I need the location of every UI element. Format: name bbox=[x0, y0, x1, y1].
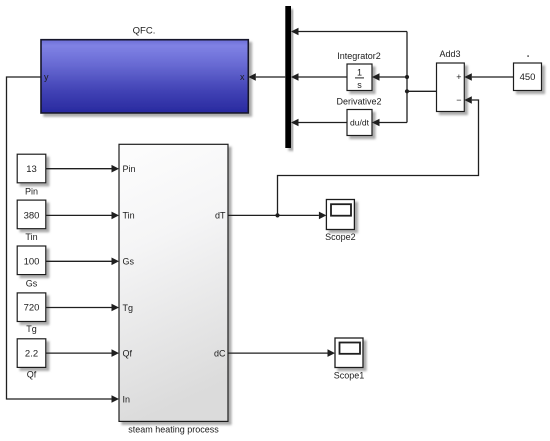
value 100 bbox=[24, 257, 40, 268]
value 2.2 bbox=[25, 348, 38, 359]
constant 100 bbox=[17, 246, 46, 275]
adder Add3 (mirrored) bbox=[437, 63, 465, 112]
value 450 bbox=[520, 72, 536, 83]
svg-text:In: In bbox=[123, 395, 131, 405]
svg-text:Derivative2: Derivative2 bbox=[336, 97, 381, 107]
subsystem steam heating process block bbox=[119, 144, 228, 421]
sign + bbox=[456, 72, 461, 82]
sign - bbox=[456, 95, 461, 105]
label Add3 bbox=[439, 49, 460, 59]
label Tin bbox=[25, 232, 37, 242]
label Tg bbox=[26, 324, 37, 334]
constant 450 bbox=[514, 63, 542, 91]
pin label Gs bbox=[123, 257, 135, 267]
svg-text:s: s bbox=[357, 80, 362, 90]
block Derivative2 bbox=[347, 110, 372, 136]
svg-text:steam heating process: steam heating process bbox=[128, 424, 219, 434]
svg-text:720: 720 bbox=[24, 303, 40, 314]
svg-text:Add3: Add3 bbox=[439, 49, 460, 59]
svg-text:Integrator2: Integrator2 bbox=[337, 51, 381, 61]
svg-text:du/dt: du/dt bbox=[350, 118, 370, 128]
svg-text:450: 450 bbox=[520, 72, 536, 83]
label Scope2 bbox=[325, 232, 356, 242]
wire constant 450 to Add3 plus input bbox=[464, 73, 513, 81]
label Scope1 bbox=[334, 370, 365, 380]
wire dT feedback branch to Add3 minus input bbox=[278, 96, 479, 215]
svg-text:dT: dT bbox=[215, 211, 226, 221]
wire junction vertical line bbox=[406, 32, 408, 123]
svg-text:−: − bbox=[456, 95, 461, 105]
constant 380 bbox=[17, 200, 46, 229]
svg-text:2.2: 2.2 bbox=[25, 348, 38, 359]
wire junction to Integrator2 input bbox=[372, 73, 407, 81]
label QFC. bbox=[133, 26, 156, 37]
svg-text:Scope1: Scope1 bbox=[334, 370, 365, 380]
svg-text:380: 380 bbox=[24, 211, 40, 222]
pin label In bbox=[123, 395, 131, 405]
svg-text:Qf: Qf bbox=[27, 369, 37, 379]
pin label x (QFC input) bbox=[240, 72, 245, 82]
wire QFC.y to process In (feedback left side) bbox=[7, 77, 120, 403]
wire junction to Derivative2 input bbox=[372, 119, 407, 127]
svg-text:Tin: Tin bbox=[25, 232, 37, 242]
svg-text:Tin: Tin bbox=[123, 211, 135, 221]
svg-text:1: 1 bbox=[357, 67, 362, 77]
pin label y (QFC output) bbox=[44, 72, 49, 82]
label Gs bbox=[26, 279, 38, 289]
svg-text:Tg: Tg bbox=[26, 324, 37, 334]
wire constant 380 to process Tin bbox=[46, 212, 119, 220]
value du/dt bbox=[350, 118, 370, 128]
wire top branch to mux input 1 bbox=[291, 28, 407, 36]
pin label dC bbox=[214, 348, 226, 358]
wire Integrator2 output to mux input 2 bbox=[291, 73, 347, 81]
svg-text:y: y bbox=[44, 72, 49, 82]
wire Add3 output to junction bbox=[407, 90, 437, 92]
wire constant 720 to process Tg bbox=[46, 304, 119, 312]
svg-text:Scope2: Scope2 bbox=[325, 232, 356, 242]
junction dot on dT wire bbox=[275, 213, 279, 217]
svg-text:100: 100 bbox=[24, 257, 40, 268]
pin label Tin bbox=[123, 211, 135, 221]
value 1/s bbox=[355, 67, 364, 89]
wire mux out to QFC.x bbox=[248, 73, 285, 81]
constant 720 bbox=[17, 293, 46, 322]
wire process dC to Scope1 bbox=[228, 349, 335, 357]
svg-text:+: + bbox=[456, 72, 461, 82]
mux bar bbox=[285, 6, 291, 148]
label Pin bbox=[25, 186, 38, 196]
svg-text:x: x bbox=[240, 72, 245, 82]
block Integrator2 bbox=[347, 64, 372, 91]
wire process dT to Scope2 bbox=[228, 212, 326, 220]
scope Scope1 bbox=[335, 338, 363, 368]
svg-text:13: 13 bbox=[26, 164, 37, 175]
svg-text:Qf: Qf bbox=[123, 348, 133, 358]
svg-text:Tg: Tg bbox=[123, 303, 134, 313]
constant 13 bbox=[17, 154, 46, 183]
svg-text:Pin: Pin bbox=[123, 164, 136, 174]
label Derivative2 bbox=[336, 97, 381, 107]
junction dot B bbox=[405, 89, 409, 93]
value 720 bbox=[24, 303, 40, 314]
pin label dT bbox=[215, 211, 226, 221]
label . (dot name of 450) bbox=[527, 55, 529, 57]
wire Derivative2 output to mux input 3 bbox=[291, 119, 347, 127]
wire constant 100 to process Gs bbox=[46, 258, 119, 266]
pin label Pin bbox=[123, 164, 136, 174]
pin label Tg bbox=[123, 303, 134, 313]
svg-text:Gs: Gs bbox=[26, 279, 38, 289]
junction dot A bbox=[405, 75, 409, 79]
svg-text:dC: dC bbox=[214, 348, 226, 358]
wire constant 2.2 to process Qf bbox=[46, 349, 119, 357]
pin label Qf bbox=[123, 348, 133, 358]
constant 2.2 bbox=[17, 339, 46, 368]
label steam heating process bbox=[128, 424, 219, 434]
scope Scope2 bbox=[326, 200, 354, 230]
value 380 bbox=[24, 211, 40, 222]
value 13 bbox=[26, 164, 37, 175]
svg-text:QFC.: QFC. bbox=[133, 26, 156, 37]
label Qf bbox=[27, 369, 37, 379]
wire constant 13 to process Pin bbox=[46, 165, 119, 173]
svg-text:Pin: Pin bbox=[25, 186, 38, 196]
svg-text:Gs: Gs bbox=[123, 257, 135, 267]
subsystem QFC block bbox=[41, 40, 248, 113]
label Integrator2 bbox=[337, 51, 381, 61]
